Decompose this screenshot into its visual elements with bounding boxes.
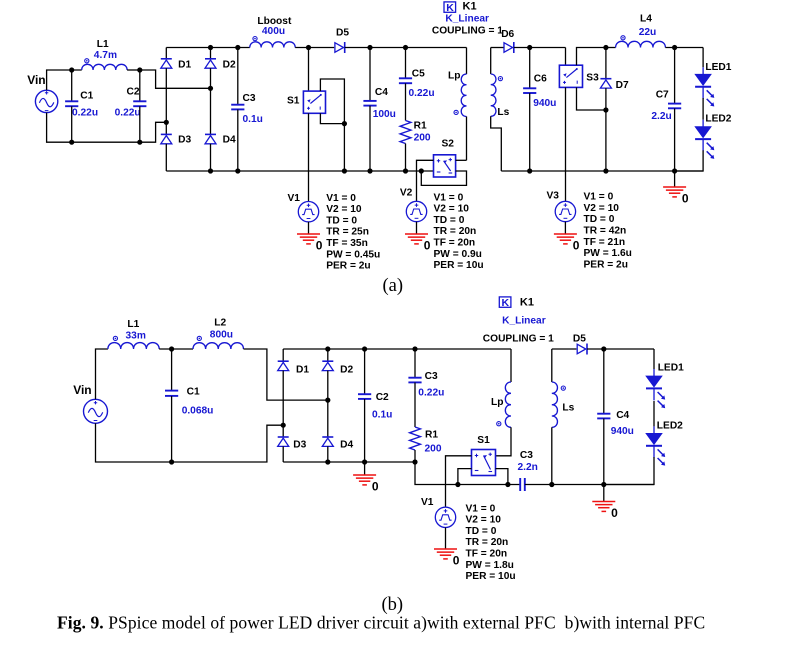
wire S3 control to V3 (a) <box>565 87 567 201</box>
junction R1 bottom (b) <box>412 459 417 464</box>
coupling symbol K1 (a) <box>444 0 477 14</box>
wire C1 branch (b) <box>171 349 173 391</box>
inductor L2 800u (b) <box>193 336 243 349</box>
svg-text:TD = 0: TD = 0 <box>434 215 465 226</box>
svg-text:0.22u: 0.22u <box>418 387 444 398</box>
junction D7 bottom node (a) <box>603 107 608 112</box>
junction C3 top (b) <box>412 346 417 351</box>
wire L4 to LED column (a) <box>665 47 703 49</box>
svg-text:0: 0 <box>611 506 618 520</box>
wire D2 anode to D4 (b) <box>327 371 329 437</box>
inductor Lp primary (b) <box>497 382 511 427</box>
ground 0 below V1 (b) <box>434 549 460 568</box>
junction S1 top node (a) <box>306 45 311 50</box>
svg-text:940u: 940u <box>611 426 634 437</box>
svg-text:COUPLING = 1: COUPLING = 1 <box>483 334 554 345</box>
svg-text:PER = 10u: PER = 10u <box>466 571 516 582</box>
svg-text:2.2n: 2.2n <box>518 462 538 473</box>
wire secondary bottom rail (a) <box>501 170 703 172</box>
wire C4 to lower rail (b) <box>603 419 605 485</box>
svg-text:S3: S3 <box>586 73 599 84</box>
svg-text:0: 0 <box>372 480 379 494</box>
wire S3 pin1 from rail (a) <box>565 48 567 66</box>
inductor Ls secondary (a) <box>491 74 503 116</box>
junction S1 control drop bottom (a) <box>342 168 347 173</box>
junction C3 bottom (a) <box>235 168 240 173</box>
capacitor C4 940u (b) <box>597 414 610 419</box>
svg-text:D5: D5 <box>573 334 586 345</box>
svg-text:C3: C3 <box>520 450 533 461</box>
svg-text:V2 = 10: V2 = 10 <box>584 203 620 214</box>
wire S1 pin2 to V1 (a) <box>308 113 310 201</box>
svg-text:C2: C2 <box>376 392 389 403</box>
ground 0 below V1 (a) <box>297 234 323 253</box>
junction C2 top (a) <box>137 67 142 72</box>
wire top rail to S1 pin1 (a) <box>308 48 310 92</box>
svg-text:Vin: Vin <box>73 383 91 397</box>
svg-text:C4: C4 <box>616 410 629 421</box>
svg-text:TR = 42n: TR = 42n <box>584 226 627 237</box>
wire S1 control loop bottom (a) <box>320 113 344 123</box>
svg-text:D3: D3 <box>293 440 306 451</box>
junction C4 top (b) <box>601 346 606 351</box>
wire C2 to filter bottom (a) <box>139 106 141 142</box>
svg-text:D3: D3 <box>178 134 191 145</box>
wire L1 to C1 node (b) <box>159 348 193 350</box>
wire L1 to C2 node (a) <box>127 69 140 71</box>
wire C2 to bridge bottom (b) <box>364 399 366 462</box>
svg-text:0.22u: 0.22u <box>409 88 435 99</box>
wire D7 node to secondary rail (a) <box>605 110 607 171</box>
wire D1 anode to D3 node (a) <box>165 68 167 134</box>
capacitor C4 100u (a) <box>363 101 376 106</box>
junction C6 bottom (a) <box>527 168 532 173</box>
svg-text:Fig. 9. PSpice model of power: Fig. 9. PSpice model of power LED driver… <box>57 612 705 632</box>
diode D6 (a) <box>504 42 514 53</box>
wire R1 to bottom rail (a) <box>405 144 407 172</box>
capacitor C6 940u (a) <box>523 88 536 93</box>
junction bridge right mid node (a) <box>208 86 213 91</box>
capacitor C2 0.22u (a) <box>133 101 146 106</box>
wire D7 anode to mid node (a) <box>605 88 607 110</box>
diode D3 (b) <box>278 437 289 446</box>
junction C7 bottom / ground tap (a) <box>672 168 677 173</box>
svg-text:33m: 33m <box>126 331 146 342</box>
wire bridge left col top (b) <box>282 349 284 361</box>
inductor L4 22u (a) <box>616 36 666 48</box>
svg-text:COUPLING = 1: COUPLING = 1 <box>432 26 503 37</box>
params of V2 (a) <box>434 192 484 271</box>
wire bridge right column top (a) <box>210 48 212 59</box>
wire C6 branch (a) <box>529 48 531 89</box>
wire R1 to bridge bottom (b) <box>414 450 416 462</box>
junction C2 bottom / ground tap (b) <box>362 459 367 464</box>
wire Ls top to D5 (b) <box>552 348 577 350</box>
svg-text:TD = 0: TD = 0 <box>326 215 357 226</box>
junction C4 bottom (a) <box>367 168 372 173</box>
wire D5 to LED column (b) <box>587 348 654 350</box>
resistor R1 200 (b) <box>410 427 421 450</box>
junction C1 bottom (b) <box>169 459 174 464</box>
svg-text:L1: L1 <box>97 39 109 50</box>
params of V1 (b) <box>466 503 516 582</box>
pulse source V1 (a) <box>298 202 318 222</box>
capacitor C5 0.22u (a) <box>399 78 412 83</box>
wire C3 branch (b) <box>414 349 416 378</box>
wire ground stub below C7 (a) <box>674 171 676 187</box>
params of V1 (a) <box>326 193 380 272</box>
svg-text:K: K <box>446 2 454 14</box>
svg-text:LED2: LED2 <box>657 421 683 432</box>
junction bridge right col top (b) <box>325 346 330 351</box>
svg-text:C1: C1 <box>187 387 200 398</box>
junction bridge right mid node (b) <box>325 398 330 403</box>
wire Ls top to D6 (a) <box>491 47 504 49</box>
svg-text:D4: D4 <box>223 134 236 145</box>
svg-text:PER = 10u: PER = 10u <box>434 260 484 271</box>
capacitor C2 0.1u (b) <box>358 394 371 399</box>
svg-text:400u: 400u <box>262 26 285 37</box>
svg-text:TR = 20n: TR = 20n <box>434 226 477 237</box>
svg-text:V1: V1 <box>288 193 301 204</box>
LED LED2 (b) <box>646 426 665 465</box>
svg-text:Lp: Lp <box>448 71 460 82</box>
svg-text:K1: K1 <box>520 296 534 308</box>
resistor R1 200 (a) <box>400 121 411 144</box>
inductor Lboost 400u (a) <box>250 37 295 48</box>
svg-text:C7: C7 <box>656 90 669 101</box>
svg-text:D1: D1 <box>296 364 309 375</box>
svg-text:L2: L2 <box>214 317 226 328</box>
junction Ls bottom (b) <box>549 482 554 487</box>
params of V3 (a) <box>584 192 632 271</box>
svg-text:V3: V3 <box>547 191 560 202</box>
ground 0 below V2 (a) <box>405 234 431 253</box>
diode D1 (b) <box>278 361 289 370</box>
wire C2 node to bridge input D2 (a) <box>140 70 211 88</box>
wire D2 anode to D4 (a) <box>210 68 212 134</box>
svg-text:D7: D7 <box>616 80 629 91</box>
junction C5 top (a) <box>403 45 408 50</box>
svg-text:C6: C6 <box>534 74 547 85</box>
svg-text:K1: K1 <box>463 0 477 12</box>
ground 0 secondary (a) <box>663 187 689 206</box>
svg-text:0.22u: 0.22u <box>72 108 98 119</box>
diode D5 (b) <box>577 344 587 355</box>
svg-text:V1 = 0: V1 = 0 <box>326 193 356 204</box>
capacitor C7 2.2u (a) <box>668 104 681 109</box>
wire Ls top lead (b) <box>551 349 553 382</box>
svg-text:22u: 22u <box>639 27 657 38</box>
svg-text:C1: C1 <box>80 91 93 102</box>
wire C6 to secondary rail (a) <box>529 93 531 171</box>
svg-text:TF = 20n: TF = 20n <box>434 238 476 249</box>
junction C2 top (b) <box>362 346 367 351</box>
svg-text:PW = 0.9u: PW = 0.9u <box>434 249 482 260</box>
wire C7 to secondary rail (a) <box>674 108 676 171</box>
wire D7 node to L4 (a) <box>606 47 616 49</box>
wire S3 pin2 up to D7 node (a) <box>577 48 606 66</box>
wire Lp top lead (b) <box>510 349 512 382</box>
junction C6 top (a) <box>527 45 532 50</box>
wire lower rail right segment (b) <box>525 484 654 486</box>
junction D7 top node (a) <box>603 45 608 50</box>
svg-text:4.7m: 4.7m <box>94 50 117 61</box>
wire Vin- filter bottom rail (a) <box>47 113 167 143</box>
pulse source V2 (a) <box>406 201 426 221</box>
wire ground stub below C2 node (b) <box>364 462 366 475</box>
wire D7 cathode lead (a) <box>605 48 607 79</box>
wire S1 control- to lower rail (b) <box>458 469 472 485</box>
svg-text:0: 0 <box>424 239 431 253</box>
svg-text:(a): (a) <box>383 276 404 296</box>
junction S1 pin2 node (b) <box>505 482 510 487</box>
junction C1 top (b) <box>169 346 174 351</box>
wire C5 to R1 (a) <box>405 83 407 120</box>
svg-text:S1: S1 <box>287 96 300 107</box>
svg-text:K: K <box>502 297 510 309</box>
wire Lp bottom to S1 (b) <box>496 427 512 456</box>
junction C1 top (a) <box>69 67 74 72</box>
wire C4 branch (a) <box>369 48 371 101</box>
wire C5 branch (a) <box>405 48 407 79</box>
diode D4 (a) <box>205 134 216 143</box>
diode D4 (b) <box>322 437 333 446</box>
wire LED column top (b) <box>653 349 655 369</box>
svg-text:C5: C5 <box>412 69 425 80</box>
svg-text:TF = 35n: TF = 35n <box>326 238 368 249</box>
svg-text:V2 = 10: V2 = 10 <box>326 204 362 215</box>
svg-text:LED1: LED1 <box>658 363 684 374</box>
wire ground stub below C4 (b) <box>603 485 605 502</box>
svg-text:V1: V1 <box>421 497 434 508</box>
LED LED2 (a) <box>695 120 714 159</box>
wire Vin+ to L1 (b) <box>96 349 108 399</box>
wire S2 pin to Lp (a) <box>456 159 467 161</box>
svg-text:V1 = 0: V1 = 0 <box>466 503 496 514</box>
capacitor C3 0.1u (a) <box>231 105 244 110</box>
wire C3 to bottom rail (a) <box>237 110 239 172</box>
diode D5 (a) <box>335 42 345 53</box>
svg-text:D4: D4 <box>340 440 353 451</box>
pulse source V3 (a) <box>555 201 575 221</box>
svg-text:V2 = 10: V2 = 10 <box>466 515 502 526</box>
coupling symbol K1 (b) <box>499 296 534 309</box>
ground 0 bridge (b) <box>353 475 379 494</box>
wire Lp top lead (a) <box>466 48 468 75</box>
svg-text:V2: V2 <box>400 187 413 198</box>
svg-text:0: 0 <box>453 554 460 568</box>
wire S1 control loop top (a) <box>320 79 344 124</box>
svg-text:C2: C2 <box>127 86 140 97</box>
wire C2 branch (a) <box>139 70 141 101</box>
diode D3 (a) <box>161 134 172 143</box>
svg-text:V1 = 0: V1 = 0 <box>584 192 614 203</box>
svg-text:D2: D2 <box>223 59 236 70</box>
wire S1 control node to bottom rail (a) <box>343 124 345 171</box>
AC source Vin (a) <box>35 90 57 112</box>
svg-text:800u: 800u <box>210 330 233 341</box>
svg-text:2.2u: 2.2u <box>651 111 671 122</box>
svg-text:0.1u: 0.1u <box>372 409 392 420</box>
junction bridge left mid node (b) <box>281 423 286 428</box>
wire S1 pin2 to lower rail (b) <box>496 469 508 485</box>
svg-text:PW = 1.6u: PW = 1.6u <box>584 248 632 259</box>
junction R1 bottom (a) <box>403 168 408 173</box>
svg-text:K_Linear: K_Linear <box>445 13 489 24</box>
svg-text:D5: D5 <box>336 27 349 38</box>
diode D7 (a) <box>600 79 611 88</box>
capacitor C1 0.22u (a) <box>65 101 78 106</box>
wire S3 pin4 to D7 bottom (a) <box>577 87 606 110</box>
junction D2 top (a) <box>208 45 213 50</box>
svg-text:Vin: Vin <box>27 73 45 87</box>
svg-text:C3: C3 <box>425 371 438 382</box>
wire between LED1 and LED2 (b) <box>653 401 655 426</box>
svg-text:D2: D2 <box>340 364 353 375</box>
wire D1 anode to D3 (b) <box>282 371 284 437</box>
junction C1 bottom (a) <box>69 140 74 145</box>
inductor L1 4.7m (a) <box>82 59 127 70</box>
svg-text:LED1: LED1 <box>705 62 731 73</box>
svg-text:PER = 2u: PER = 2u <box>326 261 370 272</box>
junction D7 column bottom (a) <box>603 168 608 173</box>
wire C4 to bottom rail (a) <box>369 106 371 171</box>
wire LED2 to secondary rail (a) <box>675 150 704 171</box>
wire C3 to R1 (b) <box>414 383 416 428</box>
junction S1 control- node (b) <box>455 482 460 487</box>
svg-text:Ls: Ls <box>562 403 574 414</box>
capacitor C3 2.2n (b) <box>520 478 525 491</box>
svg-text:200: 200 <box>425 443 442 454</box>
wire C7 branch (a) <box>674 48 676 104</box>
svg-text:940u: 940u <box>533 98 556 109</box>
diode D2 (a) <box>205 59 216 68</box>
wire top rail bridge to Lboost (a) <box>166 47 250 49</box>
wire lower rail left segment (b) <box>458 484 520 486</box>
junction C2 bottom (a) <box>137 140 142 145</box>
inductor Ls secondary (b) <box>552 382 566 427</box>
svg-text:V1 = 0: V1 = 0 <box>434 192 464 203</box>
pulse source V1 (b) <box>435 507 455 527</box>
svg-text:0: 0 <box>316 239 323 253</box>
svg-text:D6: D6 <box>501 29 514 40</box>
svg-text:PW = 0.45u: PW = 0.45u <box>326 249 380 260</box>
junction C4 top (a) <box>367 45 372 50</box>
wire V3 to ground (a) <box>564 222 566 234</box>
svg-text:S1: S1 <box>477 435 490 446</box>
svg-text:K_Linear: K_Linear <box>502 315 546 326</box>
wire LED2 to lower rail (b) <box>604 457 654 484</box>
inductor Lp primary (a) <box>454 74 467 116</box>
svg-text:0: 0 <box>682 192 689 206</box>
switch S2 (a) <box>434 155 456 177</box>
svg-text:TR = 20n: TR = 20n <box>466 537 509 548</box>
wire V1 to ground (b) <box>445 528 447 550</box>
svg-text:0.22u: 0.22u <box>115 108 141 119</box>
junction S1 control node (a) <box>342 121 347 126</box>
svg-text:PW = 1.8u: PW = 1.8u <box>466 560 514 571</box>
junction C3 top (a) <box>235 45 240 50</box>
wire D6 to S3 (a) <box>514 47 566 49</box>
svg-text:D1: D1 <box>178 59 191 70</box>
wire S1 control+ to V1 (b) <box>446 456 472 507</box>
svg-text:0.1u: 0.1u <box>243 114 263 125</box>
wire D4 anode to bottom rail (a) <box>210 144 212 171</box>
diode D2 (b) <box>322 361 333 370</box>
wire S2 pin2 loop to rail (a) <box>421 171 466 185</box>
wire S2 control+ to V2 (a) <box>417 160 434 201</box>
svg-text:S2: S2 <box>442 139 455 150</box>
wire C3 branch (a) <box>237 48 239 105</box>
svg-text:TF = 20n: TF = 20n <box>466 549 508 560</box>
wire Lboost to D5 (a) <box>295 47 334 49</box>
AC source Vin (b) <box>84 399 108 423</box>
svg-text:TF = 21n: TF = 21n <box>584 237 626 248</box>
junction D4 bottom (a) <box>208 168 213 173</box>
diode D1 (a) <box>161 59 172 68</box>
svg-text:R1: R1 <box>425 429 438 440</box>
wire LED column top (a) <box>702 48 704 68</box>
wire C1 branch (a) <box>71 70 73 101</box>
svg-text:C3: C3 <box>243 93 256 104</box>
LED LED1 (a) <box>695 67 714 106</box>
wire bridge left column (a) <box>165 48 167 60</box>
svg-text:V2 = 10: V2 = 10 <box>434 204 470 215</box>
switch S1 (a) <box>303 91 325 113</box>
svg-text:L1: L1 <box>127 319 139 330</box>
wire C1 to filter bottom (a) <box>71 106 73 142</box>
junction bridge left mid node (a) <box>164 120 169 125</box>
svg-text:Lp: Lp <box>491 397 503 408</box>
svg-text:R1: R1 <box>414 121 427 132</box>
svg-text:LED2: LED2 <box>705 113 731 124</box>
wire C1 to filter bottom (b) <box>171 396 173 462</box>
svg-text:TR = 25n: TR = 25n <box>326 227 369 238</box>
ground 0 below C4 (b) <box>592 502 618 521</box>
wire L2 to bridge input D2 (b) <box>244 349 328 400</box>
wire V2 to ground (a) <box>416 222 418 234</box>
inductor L1 33m (b) <box>108 336 159 349</box>
svg-text:L4: L4 <box>640 14 652 25</box>
wire D3 anode to bottom rail (a) <box>165 144 167 171</box>
capacitor C1 0.068u (b) <box>165 391 178 396</box>
wire Ls bottom to lower rail (b) <box>551 427 553 484</box>
wire D5 to Lp top (a) <box>345 47 467 49</box>
wire bottom rail primary (a) <box>166 170 433 172</box>
svg-text:0: 0 <box>573 239 580 253</box>
svg-text:PER = 2u: PER = 2u <box>584 259 628 270</box>
svg-text:Ls: Ls <box>497 107 509 118</box>
junction C4 bottom / ground tap (b) <box>601 482 606 487</box>
switch S3 (a) <box>559 65 582 87</box>
switch S1 (b) <box>472 450 496 476</box>
wire V1 to ground (a) <box>308 222 310 234</box>
junction S2 loop node (a) <box>419 168 424 173</box>
wire Vin+ to filter top rail (a) <box>47 70 82 90</box>
svg-text:100u: 100u <box>373 109 396 120</box>
wire Vin- bottom to bridge input D1 (b) <box>96 423 284 462</box>
ground 0 below V3 (a) <box>554 234 580 253</box>
wire between LED1 and LED2 (a) <box>702 98 704 120</box>
wire D3 anode to bridge bottom (b) <box>282 446 284 462</box>
capacitor C3 0.22u (b) <box>408 378 421 383</box>
wire C2 branch (b) <box>364 349 366 394</box>
wire D4 anode to bridge bottom (b) <box>327 446 329 462</box>
wire bridge top rail (b) <box>283 348 511 350</box>
svg-text:0.068u: 0.068u <box>182 405 214 416</box>
wire rail drop to lower rail (b) <box>415 462 458 485</box>
